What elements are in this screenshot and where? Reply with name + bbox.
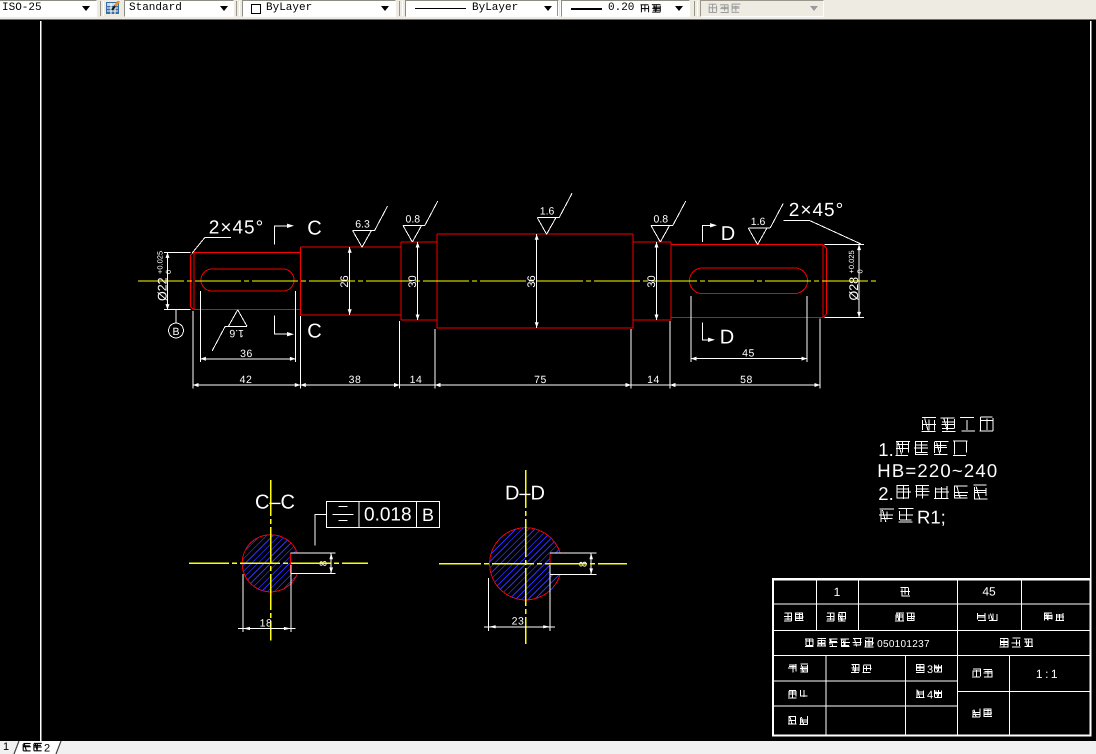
section C-C hatch <box>242 535 296 592</box>
keyway slot right (plan view) <box>690 268 808 294</box>
svg-text:D–D: D–D <box>505 483 545 505</box>
toolbar combo plot style 随颜色 (disabled) <box>700 0 824 17</box>
GD&T leader <box>315 515 327 546</box>
svg-text:1.: 1. <box>878 439 893 460</box>
keyway slot left (plan view) <box>201 269 294 291</box>
dimension 58 (length chain) <box>670 374 820 387</box>
toolbar separator <box>399 1 403 16</box>
svg-text:1.6: 1.6 <box>229 327 244 339</box>
svg-text:2×45°: 2×45° <box>789 200 844 221</box>
section mark C (top) <box>275 218 322 245</box>
dimension 75 (length chain) <box>435 374 631 387</box>
sheet frame left edge <box>40 21 42 741</box>
shoulder face at x=401 <box>400 242 402 320</box>
toolbar combo linetype ByLayer <box>405 0 559 17</box>
dimension 42 (length chain) <box>193 374 300 387</box>
svg-text:45: 45 <box>742 348 755 360</box>
svg-text:R1;: R1; <box>917 507 946 528</box>
svg-text:B: B <box>422 505 434 525</box>
section C-C shaft circle <box>242 535 297 592</box>
svg-text:14: 14 <box>647 374 660 386</box>
section C-C keyway notch <box>291 553 336 573</box>
section label D-D <box>505 483 545 505</box>
svg-text:C: C <box>307 321 321 343</box>
dimension 38 (length chain) <box>300 374 399 387</box>
dimension 45 (right keyway) <box>691 296 807 362</box>
chamfer label 2x45 deg (right) <box>784 200 861 244</box>
svg-text:14: 14 <box>410 374 423 386</box>
svg-text:75: 75 <box>534 374 547 386</box>
svg-text:C: C <box>307 218 321 240</box>
dimension 18 (C-C) <box>238 565 296 632</box>
toolbar separator <box>557 1 561 16</box>
toolbar combo color ByLayer <box>242 0 396 17</box>
dimension Ø28 +0.025/0 (right end) <box>825 245 865 318</box>
shaft centerline <box>138 280 878 282</box>
svg-text:0.8: 0.8 <box>405 214 420 226</box>
shaft section Ø26 outline <box>300 247 401 315</box>
dimension 23 (D-D) <box>484 565 555 631</box>
dimension 14 (length chain) <box>621 374 680 387</box>
sheet frame right edge <box>1090 21 1092 736</box>
svg-text:2×45°: 2×45° <box>209 218 264 239</box>
dimension extension lines (bottom chain) <box>193 311 820 389</box>
svg-text:30: 30 <box>646 275 658 287</box>
shaft section Ø28 outline <box>671 245 823 318</box>
shaft right end face with chamfer <box>823 245 826 318</box>
svg-text:1.6: 1.6 <box>540 206 555 218</box>
section C-C vertical centerline <box>270 480 272 641</box>
section mark D (top) <box>703 223 736 245</box>
svg-text:1:1: 1:1 <box>1036 667 1060 681</box>
svg-text:2.: 2. <box>878 483 893 504</box>
svg-text:18: 18 <box>260 617 273 629</box>
dimension 36 (left keyway) <box>200 291 295 362</box>
GD&T symmetry frame 0.018 B <box>327 502 440 528</box>
svg-text:45: 45 <box>982 585 996 599</box>
shoulder face at x=300 <box>299 247 301 315</box>
shaft section Ø36 outline <box>437 234 633 328</box>
svg-text:C–C: C–C <box>255 492 295 514</box>
svg-text:1.6: 1.6 <box>751 216 766 228</box>
svg-text:0.8: 0.8 <box>653 214 668 226</box>
dimension 14 (length chain) <box>390 374 446 387</box>
toolbar combo text style Standard <box>124 0 234 17</box>
section D-D shaft circle <box>490 528 561 600</box>
dimension 8 (C-C keyway width) <box>319 553 334 573</box>
toolbar button text style icon <box>105 1 121 15</box>
svg-text:30: 30 <box>407 275 419 287</box>
shaft section Ø30 outline <box>633 242 671 320</box>
toolbar combo lineweight 0.20 毫米 <box>561 0 690 17</box>
datum B symbol <box>169 310 184 338</box>
svg-text:4: 4 <box>927 690 933 702</box>
section mark D (bottom) <box>703 322 735 348</box>
svg-text:0: 0 <box>164 270 173 274</box>
dimension 26 (diameter) <box>339 247 352 315</box>
svg-text:D: D <box>721 223 735 245</box>
title row1: 1 / 轴 / 45 <box>834 585 996 600</box>
dimension 36 (diameter) <box>526 234 539 328</box>
shaft section Ø22 outline <box>194 252 300 309</box>
section D-D horizontal centerline <box>439 563 627 565</box>
title row4: 设计 / 金煊 / 第3张 / 比例 / 1:1 <box>788 664 1060 681</box>
section D-D vertical centerline <box>525 470 527 644</box>
dimension 30 (diameter) <box>646 242 659 320</box>
svg-text:3: 3 <box>927 664 933 676</box>
surface finish 1.6 (keyway, inverted) <box>212 310 247 351</box>
svg-text:58: 58 <box>740 374 753 386</box>
svg-text:23: 23 <box>512 616 525 628</box>
surface finish 6.3 <box>353 206 388 247</box>
toolbar separator <box>694 1 698 16</box>
surface finish 0.8 (second) <box>651 201 686 242</box>
tab 布局2 (active) <box>23 743 30 745</box>
section D-D keyway notch <box>550 553 596 574</box>
title row6: 制图 / 图号 <box>788 709 992 725</box>
title row5: 审核 / 共4张 <box>788 690 942 702</box>
dimension Ø22 +0.025/0 (left end) <box>156 251 191 310</box>
svg-text:D: D <box>720 327 734 349</box>
svg-text:26: 26 <box>339 275 351 287</box>
title row3: school / 减速器 <box>805 638 1033 650</box>
svg-text:2: 2 <box>44 743 50 754</box>
chamfer label 2x45 deg (left) <box>192 218 264 254</box>
section label C-C <box>255 492 295 514</box>
section mark C (bottom) <box>275 315 322 342</box>
svg-text:36: 36 <box>526 275 538 287</box>
shoulder face at x=633 <box>632 234 634 328</box>
svg-text:0: 0 <box>856 269 865 273</box>
svg-text:Ø22: Ø22 <box>156 277 170 301</box>
svg-text:42: 42 <box>240 374 253 386</box>
shoulder face at x=437 <box>436 234 438 328</box>
svg-text:0.018: 0.018 <box>364 505 412 526</box>
svg-text:1: 1 <box>834 585 841 599</box>
svg-text:38: 38 <box>349 374 362 386</box>
shaft left end face with chamfer <box>191 252 194 309</box>
section D-D hatch <box>490 528 560 600</box>
layout tab bar <box>0 741 1096 754</box>
shaft section Ø30 outline <box>401 242 437 320</box>
toolbar separator <box>100 1 104 16</box>
svg-text:36: 36 <box>240 348 253 360</box>
shoulder face at x=671 <box>670 242 672 320</box>
surface finish 0.8 (first) <box>403 201 438 242</box>
svg-text:HB=220~240: HB=220~240 <box>877 460 998 481</box>
technical requirements text block <box>877 417 998 528</box>
section C-C horizontal centerline <box>189 562 368 564</box>
svg-text:6.3: 6.3 <box>355 219 370 231</box>
dimension 30 (diameter) <box>407 242 420 320</box>
title block grid <box>773 579 1091 735</box>
svg-text:B: B <box>172 326 179 338</box>
dimension 8 (D-D keyway width) <box>578 553 594 574</box>
surface finish 1.6 (right) <box>748 204 783 245</box>
svg-text:050101237: 050101237 <box>877 639 930 650</box>
surface finish 1.6 (middle) <box>537 193 572 234</box>
tab 布局1 (partial) <box>3 741 9 753</box>
svg-text:Ø28: Ø28 <box>847 277 861 301</box>
toolbar combo dim style ISO-25 <box>0 0 97 17</box>
toolbar separator <box>236 1 240 16</box>
title row2 headers <box>784 613 1064 622</box>
